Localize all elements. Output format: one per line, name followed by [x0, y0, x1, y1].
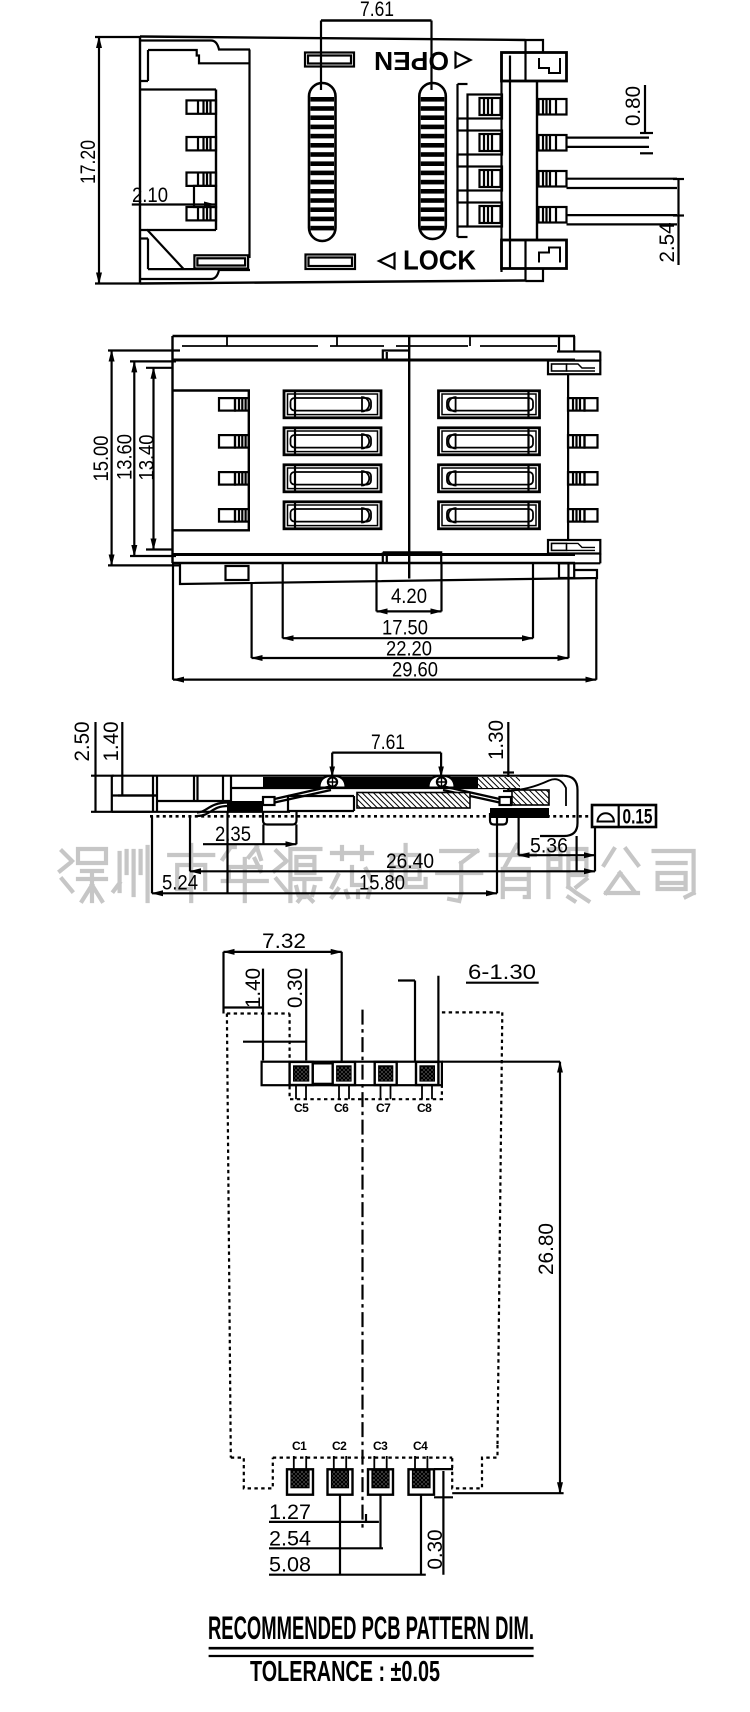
svg-text:C6: C6: [334, 1101, 349, 1115]
dimension 2.10: [132, 184, 215, 207]
left contact row 4: [187, 207, 217, 220]
svg-text:4.20: 4.20: [391, 585, 427, 608]
pad labels C1-C4: [292, 1439, 428, 1453]
right finger row 4: [468, 203, 503, 227]
contact window R4: [439, 502, 540, 529]
switch box between rows 3-4: [194, 186, 216, 207]
left contact row 2: [187, 137, 217, 150]
watermark char 7: [386, 858, 426, 900]
wall between left section and slots: [248, 50, 250, 259]
svg-text:5.24: 5.24: [162, 872, 198, 895]
watermark char 1: [60, 849, 106, 901]
spring arch left with circle: [320, 776, 346, 788]
svg-text:0.30: 0.30: [284, 968, 307, 1008]
right hatched block: [512, 790, 549, 805]
bottom tab: [526, 240, 544, 281]
watermark char 12: [656, 856, 696, 900]
contact window L1: [284, 391, 381, 418]
pad C1: [287, 1469, 313, 1494]
dimension 22.20: [252, 563, 569, 661]
dimension 1.27: [269, 1495, 379, 1575]
dimension 2.50: [71, 722, 150, 812]
right finger row 1: [468, 95, 503, 119]
contact window L2: [284, 428, 381, 455]
right stub row1: [568, 398, 598, 411]
svg-text:26.40: 26.40: [386, 850, 434, 873]
svg-text:15.80: 15.80: [359, 872, 405, 895]
dashed body outline: [227, 1012, 502, 1488]
top-right tab: [559, 336, 574, 352]
svg-text:7.32: 7.32: [262, 930, 306, 953]
left comb wall: [140, 88, 216, 90]
right stub row2: [568, 435, 598, 448]
right pin row 4 with lead: [539, 207, 678, 224]
svg-text:1.40: 1.40: [242, 968, 265, 1008]
watermark char 6: [332, 847, 372, 897]
svg-text:29.60: 29.60: [392, 659, 438, 682]
svg-text:6-1.30: 6-1.30: [468, 961, 536, 984]
svg-text:5.36: 5.36: [530, 835, 568, 858]
svg-text:OPEN: OPEN: [374, 46, 449, 76]
inner step top-left: [140, 41, 250, 50]
watermark char 6: [332, 852, 372, 900]
bottom small tab: [226, 566, 249, 580]
left contact row 3: [187, 173, 217, 186]
dimension 17.50: [283, 563, 533, 640]
svg-text:1.30: 1.30: [485, 720, 508, 760]
contact window L3: [284, 465, 381, 492]
pad C8: [416, 1062, 438, 1085]
pad band row 1: [262, 1062, 442, 1086]
bent solder lead left: [197, 803, 228, 817]
watermark char 9: [494, 852, 534, 900]
dimension 2.54: [656, 179, 684, 265]
svg-text:0.15: 0.15: [623, 806, 653, 829]
dimension 29.60: [173, 563, 596, 682]
svg-text:1.40: 1.40: [100, 722, 123, 762]
striped slot 1: [309, 83, 336, 241]
svg-text:LOCK: LOCK: [403, 245, 476, 276]
svg-text:C7: C7: [376, 1101, 391, 1115]
svg-text:2.54: 2.54: [269, 1527, 311, 1550]
svg-text:15.00: 15.00: [90, 436, 113, 482]
profile bottom line: [112, 811, 290, 813]
dimension 5.08: [269, 1495, 426, 1577]
svg-text:26.80: 26.80: [535, 1223, 558, 1275]
contact window R2: [439, 428, 540, 455]
dimension 13.60: [114, 361, 177, 556]
left stub row2: [219, 435, 249, 448]
svg-text:5.08: 5.08: [269, 1554, 311, 1577]
watermark char 11: [604, 849, 638, 893]
top tab: [526, 40, 544, 81]
profile top surface: [112, 775, 563, 777]
watermark char 5: [279, 850, 319, 900]
pad C4: [409, 1469, 435, 1494]
watermark char 11: [602, 850, 636, 898]
diagonal chamfer bottom-left: [147, 230, 184, 270]
right stub row3: [568, 472, 598, 485]
body outline bottom edge: [173, 562, 576, 564]
bottom bracket: [502, 240, 567, 269]
spring diagonal right: [443, 787, 500, 803]
OPEN triangle: [456, 53, 471, 68]
pad legs row1: [296, 1085, 432, 1099]
inner top wall (thick): [173, 359, 576, 362]
pad C2: [328, 1469, 353, 1494]
svg-text:C1: C1: [292, 1439, 307, 1453]
left end block: [112, 776, 157, 812]
pad C3: [368, 1469, 393, 1494]
body outline left edge: [171, 336, 173, 563]
watermark char 4: [225, 852, 245, 900]
right stub row4: [568, 509, 598, 521]
svg-text:2.54: 2.54: [656, 222, 679, 262]
watermark char 5: [274, 849, 320, 901]
dimension 1.30: [485, 720, 514, 791]
dimension 0.30 (pcb bottom): [424, 1469, 453, 1575]
right pin row 1: [539, 99, 567, 115]
LOCK slider bar: [306, 255, 356, 270]
lock bar left (double rect): [194, 255, 248, 268]
top metal band: [231, 777, 520, 788]
watermark char 10: [548, 854, 588, 898]
dimension 0.30 (pcb top): [243, 968, 307, 1060]
right finger row 3: [468, 167, 503, 191]
left stub row4: [219, 509, 249, 521]
dimension 2.54 (pcb): [269, 1495, 383, 1551]
dimension 17.20 (left): [77, 37, 140, 284]
watermark char 10: [548, 849, 588, 901]
body outline bottom edge: [140, 281, 526, 284]
svg-text:C8: C8: [417, 1101, 432, 1115]
svg-text:17.20: 17.20: [77, 140, 100, 184]
pad C6: [333, 1062, 355, 1085]
OPEN slider bar: [305, 53, 354, 67]
svg-text:2.50: 2.50: [71, 722, 94, 762]
svg-text:RECOMMENDED PCB PATTERN DIM.: RECOMMENDED PCB PATTERN DIM.: [208, 1610, 534, 1646]
dimension 1.40 (pcb): [225, 968, 266, 1060]
dimension 6-1.30: [398, 961, 539, 1061]
right end rounded profile: [520, 776, 578, 836]
watermark char 3: [169, 845, 213, 901]
svg-text:13.60: 13.60: [114, 434, 137, 480]
svg-text:0.80: 0.80: [622, 86, 645, 126]
watermark char 2: [114, 847, 148, 901]
svg-text:C2: C2: [332, 1439, 347, 1453]
dimension 15.80 and 5.24: [152, 872, 497, 895]
watermark char 8: [440, 854, 480, 898]
dotted seam line: [150, 815, 592, 818]
flatness feature frame 0.15: [592, 805, 656, 829]
watermark char 2: [118, 850, 144, 900]
body outline right edge: [567, 374, 569, 540]
right finger row 2: [468, 131, 503, 155]
dimension 7.32: [224, 930, 342, 1061]
svg-text:7.61: 7.61: [371, 731, 405, 754]
dimension 15.00: [90, 351, 180, 566]
left solder bar (black): [227, 801, 263, 812]
inner bottom wall (thick): [173, 553, 576, 556]
body outline top edge: [140, 37, 526, 41]
body outline left edge: [139, 37, 141, 284]
dimension 7.61 (top): [321, 0, 432, 90]
LOCK triangle: [379, 254, 395, 269]
title underline double: [209, 1647, 534, 1650]
svg-text:C5: C5: [294, 1101, 309, 1115]
svg-text:13.40: 13.40: [136, 435, 159, 481]
svg-text:C3: C3: [373, 1439, 388, 1453]
watermark char 3: [172, 850, 196, 900]
center hatched bar: [357, 793, 470, 809]
contact window R1: [439, 391, 540, 418]
dimension 26.40: [190, 850, 595, 873]
extension verticals bottom: [152, 812, 595, 893]
right foot hook: [490, 813, 507, 825]
dimension 4.20: [377, 564, 442, 612]
right comb teeth: [458, 84, 468, 237]
watermark char 12: [654, 851, 694, 897]
pad labels C5-C8: [294, 1101, 432, 1115]
bottom center tab: [383, 552, 441, 563]
right pin row 2 with lead: [539, 135, 650, 151]
svg-text:2.35: 2.35: [215, 823, 251, 846]
svg-text:17.50: 17.50: [382, 617, 428, 640]
right hook top: [548, 361, 600, 375]
watermark char 8: [437, 851, 481, 901]
dimension 1.40: [100, 722, 158, 796]
pad C7: [375, 1062, 397, 1085]
striped slot 2: [419, 83, 446, 239]
spring arch right with circle: [429, 776, 455, 788]
dimension 13.40: [136, 368, 174, 550]
inner step bottom-left: [140, 270, 250, 279]
right hook bottom: [548, 540, 600, 554]
left contact row 1: [187, 100, 217, 113]
contact window R3: [439, 465, 540, 492]
left stub row1: [219, 398, 249, 411]
dimension 2.35: [203, 823, 296, 846]
top center tab: [383, 351, 409, 362]
svg-text:7.61: 7.61: [360, 0, 394, 21]
pad C5: [290, 1062, 313, 1085]
dimension 26.80: [442, 1062, 564, 1494]
watermark char 7: [392, 845, 426, 887]
dimension 5.36: [519, 835, 595, 858]
spring diagonal left: [263, 797, 275, 805]
middle white window: [288, 796, 354, 811]
body outline top edge: [173, 335, 576, 337]
left foot hook: [263, 811, 297, 825]
dimension 0.80: [622, 85, 653, 153]
right solder bar (black): [490, 808, 549, 818]
left C-wall: [173, 391, 249, 531]
svg-text:1.27: 1.27: [269, 1501, 311, 1524]
unplated pad: [313, 1063, 333, 1083]
dimension 7.61 (side): [329, 731, 444, 778]
center vertical line: [408, 336, 410, 579]
svg-text:TOLERANCE : ±0.05: TOLERANCE : ±0.05: [250, 1656, 440, 1688]
bottom slider plate: [180, 563, 597, 584]
watermark char 4: [223, 847, 267, 901]
svg-text:C4: C4: [413, 1439, 428, 1453]
top bracket: [502, 53, 567, 82]
left stub row3: [219, 472, 249, 485]
cover curve right end: [509, 779, 566, 806]
bottom-right tab: [559, 563, 574, 578]
center line: [361, 1010, 363, 1528]
right block verticals: [500, 53, 502, 273]
right pin row 3 with lead: [539, 171, 678, 188]
cell dividers: [157, 776, 231, 801]
contact window L4: [284, 502, 381, 529]
pad legs row 2 (up): [294, 1456, 428, 1470]
watermark char 9: [491, 845, 535, 897]
